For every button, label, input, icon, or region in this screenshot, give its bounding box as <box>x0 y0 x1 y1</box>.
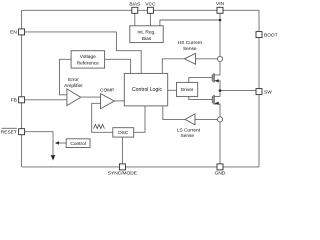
svg-text:GND: GND <box>215 171 226 177</box>
wire VIN branch to int reg <box>160 20 220 26</box>
svg-text:Sense: Sense <box>183 46 197 52</box>
ramp waveform icon <box>94 124 105 128</box>
wire driver to LS gate <box>189 97 212 100</box>
wire control box to FET gate <box>59 142 66 144</box>
block OSC <box>113 128 134 137</box>
wire RESET to open-drain FET <box>25 132 53 155</box>
wire vref to error amp + <box>60 59 72 95</box>
op-amp HS current sense amp <box>185 53 196 64</box>
svg-text:COMP: COMP <box>100 87 114 93</box>
op-amp error amplifier <box>67 89 81 106</box>
svg-text:HS Current: HS Current <box>178 40 203 46</box>
block Int Reg Bias U-REG <box>130 26 163 43</box>
pin SW <box>256 89 262 95</box>
wire LS drain <box>214 91 220 97</box>
node HS sense circle <box>217 56 222 61</box>
op-amp LS current sense amp <box>185 114 195 125</box>
arrow HS body <box>215 79 219 82</box>
node LS sense circle <box>217 117 222 122</box>
wire HS sense to control logic <box>162 59 184 74</box>
svg-text:FB: FB <box>11 97 17 103</box>
svg-text:Control: Control <box>70 141 85 147</box>
svg-text:LS Current: LS Current <box>177 127 201 133</box>
svg-text:Int. Reg.: Int. Reg. <box>137 30 155 36</box>
pin VCC <box>147 7 153 13</box>
wire VCC stub <box>149 13 151 25</box>
pin BIAS <box>132 7 138 13</box>
transistor Q-HS channel bar <box>213 73 215 82</box>
pin VIN <box>217 7 223 13</box>
junction dot VIN branch <box>219 19 222 22</box>
wire osc to sync pin <box>121 137 123 164</box>
pin SYNC/MODE <box>119 164 125 170</box>
wire left border <box>21 10 23 167</box>
wire ramp to comp <box>92 103 113 132</box>
wire control logic to driver <box>168 89 177 91</box>
pin FB <box>19 97 25 103</box>
wire bottom border <box>22 166 259 168</box>
svg-text:EN: EN <box>10 29 17 35</box>
junction dot SW node <box>219 89 222 92</box>
svg-text:SYNC/MODE: SYNC/MODE <box>108 171 137 177</box>
wire top border <box>22 9 259 11</box>
arrow LS body <box>215 102 219 105</box>
svg-text:Reference: Reference <box>77 61 99 67</box>
pin GND <box>217 164 223 170</box>
wire HS source to SW node <box>214 81 220 91</box>
wire LS source <box>214 104 220 117</box>
pin RESET <box>19 129 25 135</box>
op-amp COMP comparator <box>101 94 115 109</box>
svg-text:RESET: RESET <box>1 129 17 135</box>
svg-text:VCC: VCC <box>145 2 156 8</box>
wire EN to control logic <box>25 32 142 74</box>
wire VIN rail down <box>219 13 221 56</box>
block Driver <box>177 82 198 96</box>
svg-text:BIAS: BIAS <box>129 2 140 8</box>
wire FB to error amplifier <box>25 99 67 101</box>
wire right border <box>258 10 260 167</box>
svg-text:BOOT: BOOT <box>264 33 278 39</box>
svg-text:Voltage: Voltage <box>80 54 96 60</box>
wire SW node to SW pin <box>220 90 256 92</box>
wire BIAS stub <box>134 13 136 25</box>
svg-text:Error: Error <box>68 77 79 83</box>
wire comp out to control logic <box>114 100 124 102</box>
wire LS sense to control logic <box>163 106 185 120</box>
ground arrow <box>51 155 56 160</box>
svg-text:Bias: Bias <box>142 36 152 42</box>
wire GND rail <box>219 122 221 164</box>
block Control <box>66 139 90 148</box>
svg-text:Control Logic: Control Logic <box>132 87 162 93</box>
transistor Q-LS channel bar <box>213 95 215 105</box>
transistor Q-HS high side MOSFET gate bar <box>211 74 213 81</box>
wire error amp to comp <box>81 96 101 98</box>
pin EN <box>19 29 25 35</box>
wire LS sense amp input <box>195 118 217 120</box>
svg-text:Amplifier: Amplifier <box>64 83 83 89</box>
label RESET overbar <box>2 127 18 129</box>
wire HS sense amp input <box>196 58 218 60</box>
wire HS drain <box>214 62 220 75</box>
wire vref to control logic <box>105 59 131 73</box>
block Voltage Reference <box>71 51 105 68</box>
svg-text:Driver: Driver <box>181 87 194 93</box>
wire driver to HS gate <box>189 78 212 83</box>
svg-text:SW: SW <box>264 90 272 96</box>
svg-text:Sense: Sense <box>180 133 194 139</box>
svg-text:VIN: VIN <box>216 1 225 7</box>
wire osc to control logic <box>134 106 145 132</box>
block Control Logic <box>124 73 167 106</box>
arrow gate of reset FET <box>55 141 59 145</box>
svg-text:OSC: OSC <box>118 130 129 136</box>
transistor Q-LS low side MOSFET gate bar <box>211 96 213 103</box>
pin BOOT <box>256 32 262 38</box>
